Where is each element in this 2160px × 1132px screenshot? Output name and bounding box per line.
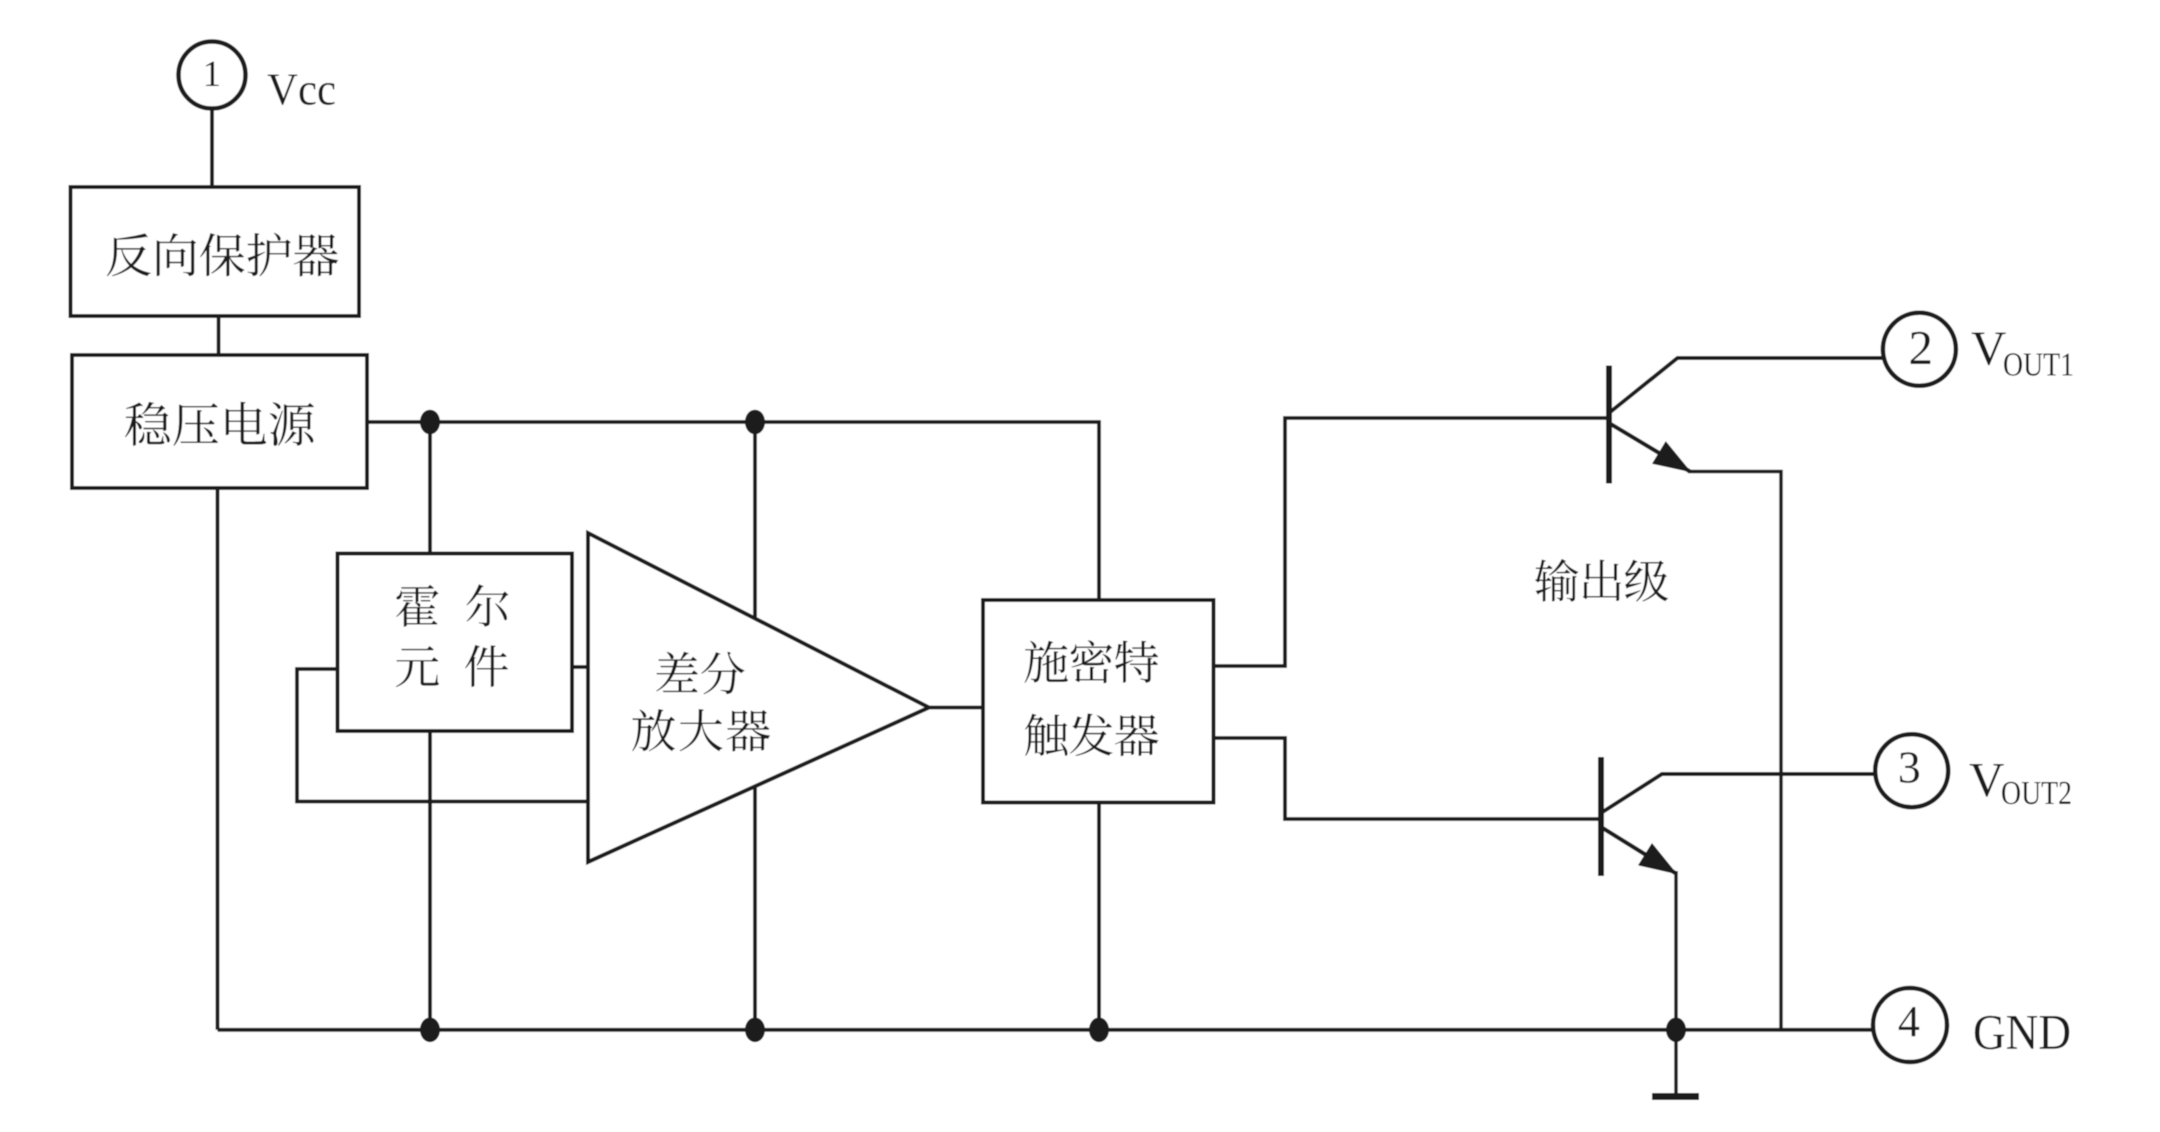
label 元 件 (element, row 2) [396, 645, 508, 687]
svg-text:OUT2: OUT2 [2001, 775, 2072, 812]
wire top bus down through Hall element [428, 422, 432, 556]
label 差分 (differential) [656, 652, 744, 695]
pin 2 number [1908, 320, 1933, 375]
pin 1 number [203, 54, 222, 95]
pin 1 circle [179, 42, 246, 109]
wire Vreg top bus to Schmitt trigger [365, 422, 1099, 602]
svg-text:3: 3 [1898, 742, 1921, 793]
wire pin1 Vcc to reverse-protection block [210, 107, 214, 189]
net label VOUT2 [1969, 752, 2072, 812]
svg-text:V: V [1971, 321, 2006, 376]
wire Schmitt output 1 to transistor Q1 base [1212, 418, 1607, 666]
svg-text:4: 4 [1898, 997, 1920, 1046]
wire amplifier output to Schmitt trigger input [927, 706, 985, 710]
label 稳压电源 (regulated supply) [125, 402, 314, 446]
net label VOUT1 [1971, 321, 2074, 384]
junction dot (top bus / Hall branch) [420, 410, 440, 435]
wire reverse-protection to regulator [217, 314, 221, 357]
wire Hall element down to ground bus [428, 729, 432, 1030]
label 施密特 (Schmitt) [1025, 640, 1159, 683]
wire regulator left side down to ground bus [216, 486, 220, 1030]
block: Schmitt trigger 施密特触发器 [983, 600, 1214, 803]
wire Hall right output to amplifier input 1 [570, 665, 590, 669]
junction dot (ground bus / Q2 emitter) [1666, 1018, 1686, 1043]
block: Hall element 霍尔元件 [338, 554, 573, 732]
block: voltage regulator 稳压电源 [72, 355, 367, 488]
transistor Q2 (lower output transistor) [1601, 757, 1877, 1093]
op-amp: differential amplifier 差分放大器 (triangle) [588, 533, 929, 862]
junction dot (top bus / amplifier branch) [745, 410, 765, 435]
wire Schmitt trigger down to ground bus [1097, 801, 1101, 1030]
pin 4 circle [1873, 988, 1947, 1062]
ground symbol [1652, 1093, 1699, 1100]
transistor Q1 (upper output transistor) [1609, 358, 1886, 1030]
block: reverse protection 反向保护器 [71, 187, 360, 316]
wire Schmitt output 2 to transistor Q2 base [1212, 738, 1599, 819]
pin 2 circle [1883, 313, 1956, 386]
label 放大器 (amplifier) [632, 709, 770, 751]
svg-text:Vcc: Vcc [267, 64, 336, 115]
junction dot (ground bus / Hall branch) [420, 1018, 440, 1043]
svg-text:V: V [1969, 752, 2004, 807]
junction dot (ground bus / Schmitt branch) [1089, 1018, 1109, 1043]
svg-text:GND: GND [1973, 1004, 2071, 1060]
label 输出级 (output stage) [1535, 559, 1668, 602]
junction dot (ground bus / amplifier branch) [745, 1018, 765, 1043]
pin 3 number [1898, 742, 1921, 793]
svg-text:OUT1: OUT1 [2003, 347, 2074, 384]
label 霍 尔 (Hall, row 1) [396, 584, 508, 626]
svg-text:1: 1 [203, 54, 222, 95]
pin 3 circle [1875, 734, 1948, 807]
pin 4 number [1898, 997, 1920, 1046]
label 触发器 (trigger) [1025, 713, 1158, 756]
net label Vcc [267, 64, 336, 115]
wire Hall left output loop to amplifier input 2 [297, 669, 590, 802]
net label GND [1973, 1004, 2071, 1060]
svg-text:2: 2 [1908, 320, 1933, 375]
ground bus [218, 1028, 1875, 1032]
label 反向保护器 (reverse protection) [107, 233, 338, 277]
wire top bus down to ground bus through amplifier [753, 422, 757, 1030]
